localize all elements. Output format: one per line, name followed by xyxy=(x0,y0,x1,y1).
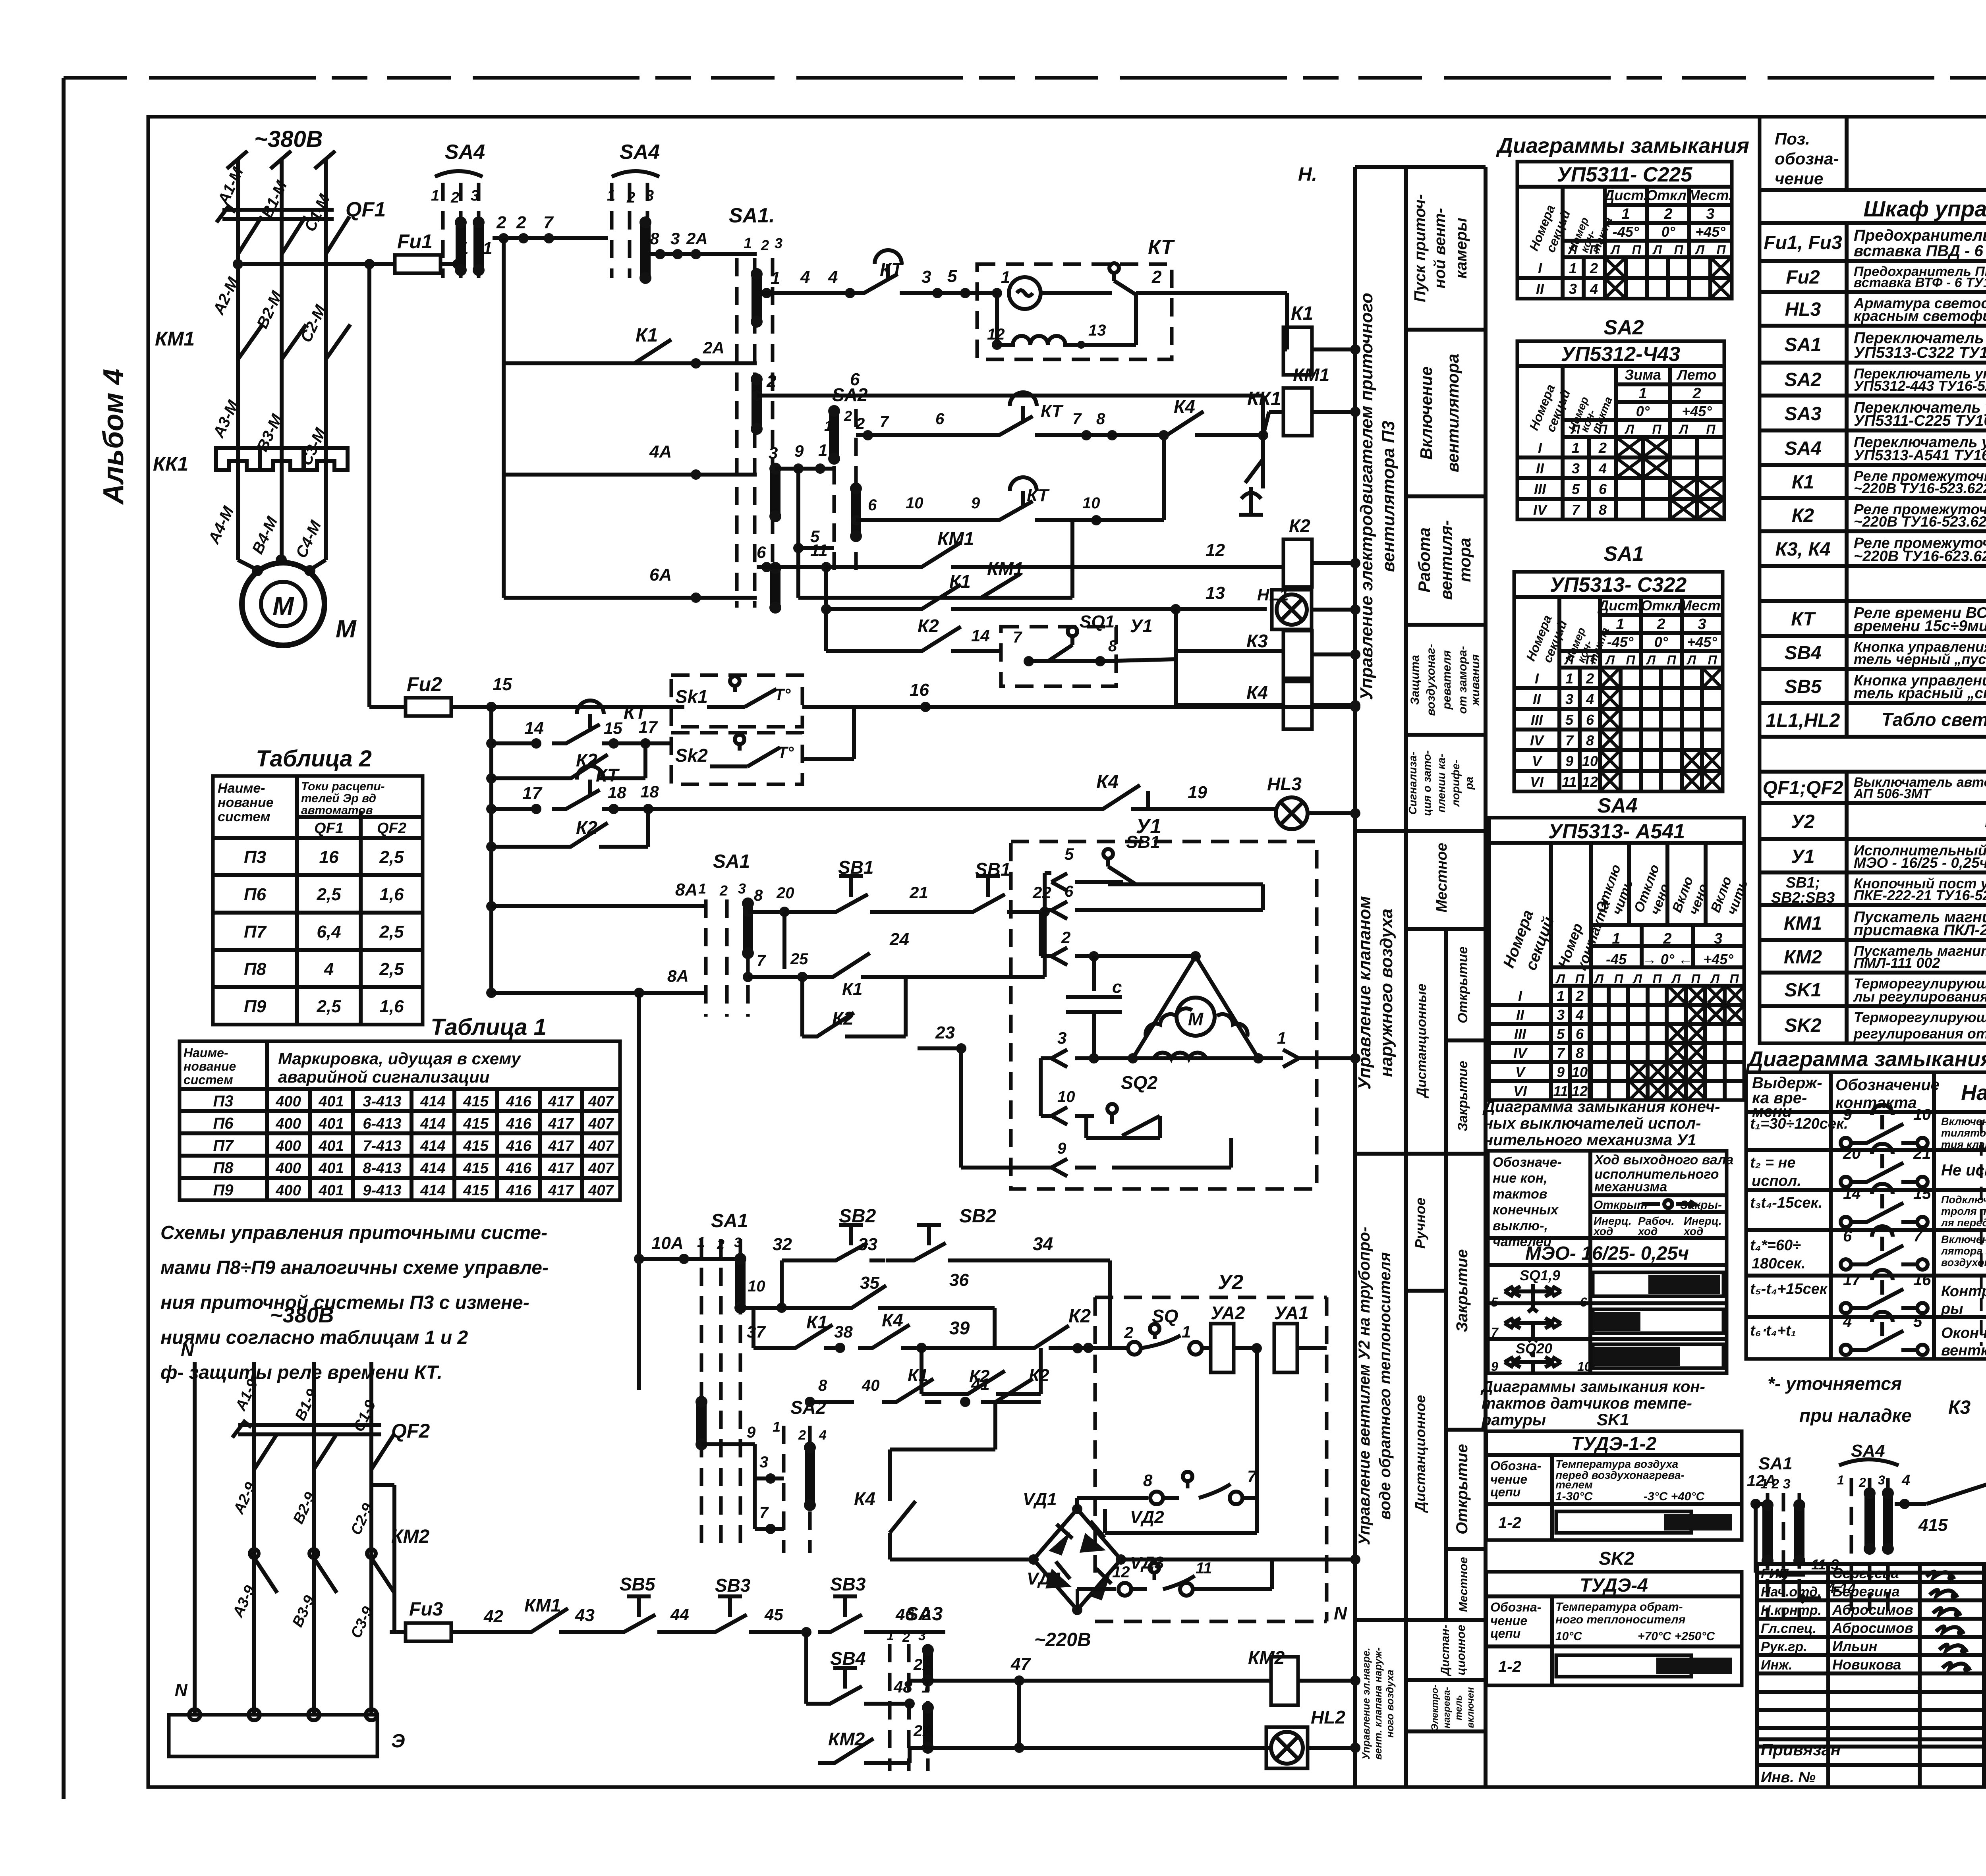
svg-text:39: 39 xyxy=(949,1318,970,1338)
svg-text:III: III xyxy=(1514,1026,1526,1042)
svg-text:414: 414 xyxy=(420,1116,445,1132)
svg-text:ПМЛ-111 002: ПМЛ-111 002 xyxy=(1854,955,1940,971)
svg-text:Включение приточного венти-: Включение приточного венти- xyxy=(1941,1233,1986,1245)
svg-text:1: 1 xyxy=(1182,1322,1191,1341)
svg-text:Обозна-: Обозна- xyxy=(1490,1600,1541,1614)
limit switch SQ1 box xyxy=(1001,627,1116,686)
svg-text:венткамеры: венткамеры xyxy=(1941,1342,1986,1359)
svg-text:3: 3 xyxy=(1569,281,1577,297)
svg-text:КМ2: КМ2 xyxy=(1784,947,1822,968)
KT motor symbol xyxy=(1009,277,1041,309)
svg-text:КМ1: КМ1 xyxy=(937,528,974,549)
zone strip frame xyxy=(1353,167,1357,1787)
svg-text:Наиме-: Наиме- xyxy=(218,781,265,796)
zone: работа вентилятора xyxy=(1406,623,1486,627)
rung 22 connector 5 SB1 xyxy=(1045,871,1051,875)
svg-text:10: 10 xyxy=(1582,753,1598,769)
node 5 branch xyxy=(793,543,804,553)
svg-text:Нач.отд.: Нач.отд. xyxy=(1761,1585,1821,1600)
svg-text:Рук.гр.: Рук.гр. xyxy=(1761,1639,1807,1654)
motor M xyxy=(238,560,326,570)
svg-text:МЭО- 16/25- 0,25ч: МЭО- 16/25- 0,25ч xyxy=(1525,1243,1689,1264)
svg-text:Ход выходного вала: Ход выходного вала xyxy=(1594,1152,1733,1168)
svg-text:Л: Л xyxy=(1695,243,1705,257)
svg-text:HL1: HL1 xyxy=(1257,585,1289,604)
svg-text:Мест.: Мест. xyxy=(1688,187,1733,203)
svg-text:Токи расцепи-: Токи расцепи- xyxy=(301,780,385,793)
svg-text:t₂ = не: t₂ = не xyxy=(1750,1154,1796,1171)
svg-text:Л: Л xyxy=(1679,422,1688,436)
svg-text:вентиля-: вентиля- xyxy=(1437,520,1455,600)
svg-text:III: III xyxy=(1531,712,1543,728)
svg-text:Fu2: Fu2 xyxy=(1786,267,1820,288)
svg-text:6: 6 xyxy=(868,496,877,514)
svg-text:Пуск приточ-: Пуск приточ- xyxy=(1411,194,1429,302)
rung K1-13 to HL1 xyxy=(824,567,828,609)
svg-text:Местное: Местное xyxy=(1433,843,1450,912)
svg-text:телей Эр вд: телей Эр вд xyxy=(301,792,376,805)
svg-text:1,6: 1,6 xyxy=(379,997,404,1016)
rung 8 40 K1 41 K2 xyxy=(805,1397,815,1407)
node 7 rung xyxy=(765,1524,776,1534)
svg-text:SB2: SB2 xyxy=(839,1206,876,1227)
svg-text:П: П xyxy=(1626,653,1635,667)
svg-text:7: 7 xyxy=(1572,502,1580,518)
svg-text:1: 1 xyxy=(1569,260,1577,276)
svg-text:У2: У2 xyxy=(1218,1271,1243,1294)
svg-text:I: I xyxy=(1538,440,1542,456)
svg-text:выклю-,: выклю-, xyxy=(1493,1218,1548,1233)
svg-text:47: 47 xyxy=(1010,1654,1031,1674)
svg-text:6: 6 xyxy=(1599,481,1607,497)
svg-text:-3°С +40°С: -3°С +40°С xyxy=(1644,1490,1705,1503)
svg-text:416: 416 xyxy=(506,1160,531,1177)
svg-text:414: 414 xyxy=(420,1138,445,1154)
svg-text:В1-9: В1-9 xyxy=(292,1386,321,1423)
svg-text:SK2: SK2 xyxy=(1784,1015,1822,1036)
svg-text:Мест.: Мест. xyxy=(1680,597,1724,614)
signature table xyxy=(1757,1580,1986,1584)
svg-text:0°: 0° xyxy=(1654,634,1668,650)
svg-text:Температура воздуха: Температура воздуха xyxy=(1555,1458,1678,1470)
svg-text:18: 18 xyxy=(640,782,659,801)
svg-text:ф- защиты реле времени КТ.: ф- защиты реле времени КТ. xyxy=(160,1362,442,1383)
svg-text:1: 1 xyxy=(1616,616,1624,633)
button SB5 stop xyxy=(612,1615,673,1632)
svg-text:401: 401 xyxy=(318,1116,344,1132)
svg-text:7-413: 7-413 xyxy=(363,1138,401,1154)
svg-text:t₅-t₄+15сек: t₅-t₄+15сек xyxy=(1750,1281,1828,1297)
svg-text:2: 2 xyxy=(844,408,852,424)
button SB3 start xyxy=(818,1615,880,1632)
svg-text:УП5312-Ч43: УП5312-Ч43 xyxy=(1561,343,1680,366)
svg-text:Назначение контакта: Назначение контакта xyxy=(1961,1081,1986,1105)
svg-text:К3: К3 xyxy=(1948,1397,1971,1418)
svg-text:3: 3 xyxy=(1572,460,1580,477)
svg-text:при наладке: при наладке xyxy=(1799,1405,1912,1426)
bridge top contact 8-7 xyxy=(1075,1498,1079,1509)
svg-text:SA2: SA2 xyxy=(1603,316,1644,339)
svg-text:КМ1: КМ1 xyxy=(1293,365,1329,385)
svg-text:нагрева-: нагрева- xyxy=(1441,1687,1452,1728)
svg-text:конечных: конечных xyxy=(1493,1202,1559,1218)
svg-text:тель: тель xyxy=(1453,1695,1464,1720)
svg-text:Терморегулирующее устройство: Терморегулирующее устройство ТУДЭ-4. Пре… xyxy=(1854,1009,1986,1025)
svg-text:УП5313- С322: УП5313- С322 xyxy=(1550,573,1687,596)
svg-text:2: 2 xyxy=(1151,267,1162,287)
svg-text:SA1: SA1 xyxy=(711,1210,748,1231)
svg-text:2,5: 2,5 xyxy=(379,847,404,867)
svg-text:Fu1, Fu3: Fu1, Fu3 xyxy=(1764,232,1842,253)
svg-text:10: 10 xyxy=(1913,1106,1931,1123)
svg-text:SB3: SB3 xyxy=(715,1575,751,1596)
svg-text:П: П xyxy=(1585,653,1595,667)
svg-text:3: 3 xyxy=(769,444,778,462)
svg-text:QF1;QF2: QF1;QF2 xyxy=(1763,778,1843,799)
svg-text:ля перед включением вентилятор: ля перед включением вентилятора xyxy=(1940,1217,1986,1229)
svg-text:1: 1 xyxy=(1277,1029,1286,1047)
component list table frame xyxy=(1760,117,1986,1043)
rung 4A xyxy=(502,363,506,598)
svg-text:407: 407 xyxy=(588,1182,614,1199)
svg-text:400: 400 xyxy=(275,1160,301,1177)
svg-text:П: П xyxy=(1706,422,1716,436)
svg-text:обозна-: обозна- xyxy=(1775,149,1839,168)
svg-text:→ 0° ←: → 0° ← xyxy=(1642,951,1692,967)
svg-text:8: 8 xyxy=(1586,732,1594,749)
svg-text:V: V xyxy=(1515,1064,1526,1080)
svg-text:7: 7 xyxy=(1913,1228,1923,1245)
svg-text:5: 5 xyxy=(1572,481,1580,497)
svg-text:1: 1 xyxy=(818,441,827,459)
svg-text:415: 415 xyxy=(1918,1515,1948,1535)
svg-text:1: 1 xyxy=(1621,206,1630,222)
svg-text:ных выключателей испол-: ных выключателей испол- xyxy=(1484,1115,1701,1132)
svg-text:1L1,HL2: 1L1,HL2 xyxy=(1766,710,1840,731)
svg-text:К4: К4 xyxy=(1246,682,1268,703)
svg-text:II: II xyxy=(1516,1007,1524,1023)
wire 16 xyxy=(802,705,925,709)
svg-text:Лето: Лето xyxy=(1676,367,1716,383)
svg-text:УП5311-С225 ТУ16-524.074-75: УП5311-С225 ТУ16-524.074-75 xyxy=(1854,412,1986,429)
svg-text:19: 19 xyxy=(1188,783,1207,802)
TUDE-4 table xyxy=(1486,1572,1742,1685)
svg-text:6,4: 6,4 xyxy=(317,922,341,942)
time relay KT box xyxy=(977,264,1172,359)
svg-text:21: 21 xyxy=(1913,1145,1931,1162)
svg-text:6А: 6А xyxy=(649,565,672,585)
svg-text:нительного механизма У1: нительного механизма У1 xyxy=(1484,1131,1696,1149)
svg-text:УА1: УА1 xyxy=(1274,1303,1309,1323)
K2 contact low xyxy=(800,977,804,1036)
svg-text:4А: 4А xyxy=(649,442,672,461)
svg-text:10: 10 xyxy=(906,494,923,512)
svg-text:камеры: камеры xyxy=(1453,218,1470,278)
svg-text:~380В: ~380В xyxy=(254,126,323,152)
svg-text:25: 25 xyxy=(790,950,808,968)
svg-text:УП5313- А541: УП5313- А541 xyxy=(1548,820,1685,843)
svg-text:Диаграмма замыкания конеч-: Диаграмма замыкания конеч- xyxy=(1482,1098,1720,1116)
wire 34 drop xyxy=(1108,1260,1112,1348)
svg-text:П: П xyxy=(1589,243,1599,257)
svg-text:45: 45 xyxy=(764,1605,783,1624)
svg-text:лы регулирования от-30°С до+40: лы регулирования от-30°С до+40°С ТУ25 02… xyxy=(1853,988,1986,1005)
rung 6-11 KM1-12 to K2 xyxy=(761,562,772,572)
svg-text:5: 5 xyxy=(1913,1313,1922,1330)
branch to K1 contact 24 xyxy=(782,912,786,969)
relay coil K3 xyxy=(1283,631,1312,678)
svg-text:SB5: SB5 xyxy=(620,1574,656,1594)
svg-text:407: 407 xyxy=(588,1160,614,1177)
svg-text:SA2: SA2 xyxy=(832,384,868,405)
svg-text:10: 10 xyxy=(1082,494,1100,512)
svg-text:1: 1 xyxy=(1837,1473,1844,1487)
svg-text:К4: К4 xyxy=(882,1310,903,1330)
svg-text:2: 2 xyxy=(1590,260,1598,276)
svg-text:SA1: SA1 xyxy=(1758,1454,1793,1473)
wire 400 xyxy=(1756,1571,1986,1575)
svg-text:Инж.: Инж. xyxy=(1761,1658,1792,1673)
svg-text:ход: ход xyxy=(1593,1225,1613,1237)
svg-text:9: 9 xyxy=(971,494,980,512)
svg-text:Н.: Н. xyxy=(1298,164,1317,185)
svg-text:2А: 2А xyxy=(913,1656,934,1673)
svg-text:Предохранитель ПРС-6-П ~380В.: Предохранитель ПРС-6-П ~380В. Плавкая xyxy=(1854,227,1986,244)
svg-text:КТ: КТ xyxy=(596,765,620,786)
svg-text:М: М xyxy=(1188,1009,1204,1029)
svg-text:1: 1 xyxy=(887,1628,894,1643)
svg-text:ние кон,: ние кон, xyxy=(1493,1171,1547,1186)
svg-text:2: 2 xyxy=(1575,988,1584,1004)
svg-text:III: III xyxy=(1534,481,1546,497)
svg-text:Э: Э xyxy=(391,1731,405,1752)
svg-text:Маркировка, идущая в схему: Маркировка, идущая в схему xyxy=(278,1049,522,1068)
svg-text:лорифе-: лорифе- xyxy=(1449,760,1462,807)
svg-text:SA4: SA4 xyxy=(1597,794,1637,817)
svg-text:414: 414 xyxy=(420,1093,445,1110)
svg-text:Дистанционные: Дистанционные xyxy=(1414,984,1429,1098)
svg-text:1-2: 1-2 xyxy=(1498,1658,1521,1675)
svg-text:ниями согласно таблицам 1 и: ниями согласно таблицам 1 и 2 xyxy=(160,1327,468,1348)
svg-text:SQ1,9: SQ1,9 xyxy=(1520,1267,1560,1283)
svg-text:П: П xyxy=(1598,422,1607,436)
svg-text:+45°: +45° xyxy=(1687,634,1717,650)
svg-text:41: 41 xyxy=(971,1375,990,1393)
svg-text:9: 9 xyxy=(794,442,804,460)
svg-text:8: 8 xyxy=(754,887,763,904)
svg-text:наружного воздуха: наружного воздуха xyxy=(1377,909,1396,1077)
connector 6 return xyxy=(1051,901,1123,919)
svg-text:15: 15 xyxy=(604,719,622,737)
thermostat SK2 box xyxy=(671,733,802,784)
svg-text:2: 2 xyxy=(1663,206,1672,222)
svg-text:2,5: 2,5 xyxy=(316,885,341,904)
rung 32 SB2 33 SB2 34 xyxy=(780,1260,784,1308)
svg-text:38: 38 xyxy=(834,1322,853,1341)
svg-text:6: 6 xyxy=(935,410,945,428)
svg-text:А1-М: А1-М xyxy=(214,164,247,208)
svg-text:К1: К1 xyxy=(1792,472,1814,493)
svg-text:14: 14 xyxy=(971,626,990,645)
svg-text:2: 2 xyxy=(1598,440,1607,456)
svg-text:П: П xyxy=(1708,653,1717,667)
svg-text:механизма: механизма xyxy=(1594,1179,1667,1195)
contact K3 no1 xyxy=(1905,1481,1986,1504)
node 3 rung xyxy=(765,1473,776,1484)
svg-text:В1-М: В1-М xyxy=(258,178,291,221)
svg-text:12: 12 xyxy=(1206,540,1225,560)
svg-text:32: 32 xyxy=(773,1235,792,1254)
svg-text:QF2: QF2 xyxy=(391,1420,430,1442)
phase wire C1-M xyxy=(324,159,328,560)
svg-text:Откл: Откл xyxy=(1641,597,1681,614)
svg-text:1-2: 1-2 xyxy=(1498,1514,1521,1532)
svg-text:SQ1: SQ1 xyxy=(1080,612,1115,631)
table 1 xyxy=(180,1041,620,1200)
svg-text:1,6: 1,6 xyxy=(379,885,404,904)
svg-text:18: 18 xyxy=(608,783,626,802)
svg-text:чение: чение xyxy=(1490,1472,1527,1486)
rung 2A-47 to KM2 coil xyxy=(923,1675,933,1686)
KT release contact xyxy=(1109,263,1119,273)
svg-text:Схемы управления приточными: Схемы управления приточными систе- xyxy=(160,1222,547,1243)
svg-text:3: 3 xyxy=(918,1628,926,1643)
TUDE-1-2 table xyxy=(1486,1431,1742,1540)
svg-text:3: 3 xyxy=(775,235,782,251)
svg-text:SK2: SK2 xyxy=(1599,1548,1634,1569)
svg-text:2: 2 xyxy=(516,213,526,232)
svg-text:3: 3 xyxy=(1557,1007,1565,1023)
rung 10A xyxy=(634,1254,644,1264)
svg-text:17: 17 xyxy=(522,784,543,803)
svg-text:6: 6 xyxy=(1576,1026,1584,1042)
svg-text:15: 15 xyxy=(493,675,512,694)
svg-text:7: 7 xyxy=(543,213,554,232)
svg-text:+45°: +45° xyxy=(1682,403,1712,419)
svg-text:Откл.: Откл. xyxy=(1646,187,1690,203)
rung 7-25-K1 xyxy=(743,972,753,982)
svg-text:t₄*=60÷: t₄*=60÷ xyxy=(1750,1237,1801,1254)
svg-text:7: 7 xyxy=(1072,410,1082,428)
svg-text:ного воздуха: ного воздуха xyxy=(1384,1669,1396,1737)
svg-text:лятора зимой (после прогрева: лятора зимой (после прогрева xyxy=(1940,1245,1986,1257)
svg-text:Обозначение: Обозначение xyxy=(1835,1076,1940,1094)
MEO table xyxy=(1488,1151,1727,1373)
svg-text:6: 6 xyxy=(1586,712,1594,728)
svg-text:~220В: ~220В xyxy=(1034,1629,1091,1650)
svg-text:SB3: SB3 xyxy=(830,1574,866,1594)
svg-text:Сигнализа-: Сигнализа- xyxy=(1406,752,1419,815)
relay coil K1 xyxy=(1283,327,1312,375)
svg-text:SA1.: SA1. xyxy=(729,204,775,227)
svg-text:вент. клапана наруж-: вент. клапана наруж- xyxy=(1372,1648,1384,1760)
contact KM1 aux xyxy=(467,1630,516,1634)
svg-text:У1: У1 xyxy=(1130,616,1153,636)
svg-text:2: 2 xyxy=(719,882,728,899)
svg-text:Обозначе-: Обозначе- xyxy=(1493,1155,1562,1170)
svg-text:Управление электродвигателем: Управление электродвигателем приточного xyxy=(1357,293,1376,700)
svg-text:2А: 2А xyxy=(686,229,708,248)
svg-text:ного теплоносителя: ного теплоносителя xyxy=(1555,1613,1686,1626)
svg-text:Зима: Зима xyxy=(1625,367,1661,383)
svg-text:SB1: SB1 xyxy=(838,857,873,878)
svg-text:7: 7 xyxy=(759,1504,769,1521)
svg-text:П8: П8 xyxy=(244,959,267,979)
rung K2-14 SQ1 xyxy=(824,609,828,651)
svg-text:SQ2: SQ2 xyxy=(1121,1072,1157,1093)
svg-text:+70°С +250°С: +70°С +250°С xyxy=(1638,1630,1715,1643)
svg-text:нование: нование xyxy=(218,795,274,810)
zone: защита воздухонагревателя xyxy=(1406,733,1486,737)
svg-text:3: 3 xyxy=(922,267,931,287)
svg-text:ры: ры xyxy=(1941,1301,1963,1317)
svg-text:+45°: +45° xyxy=(1695,224,1725,240)
svg-text:t₃t₄-15сек.: t₃t₄-15сек. xyxy=(1750,1195,1822,1211)
svg-text:1-30°С: 1-30°С xyxy=(1555,1490,1593,1503)
svg-text:QF1: QF1 xyxy=(346,198,386,221)
svg-text:SB1: SB1 xyxy=(975,859,1010,880)
svg-text:Включение приточного вен-: Включение приточного вен- xyxy=(1941,1116,1986,1127)
svg-text:П9: П9 xyxy=(213,1181,234,1199)
svg-text:К1: К1 xyxy=(949,571,971,592)
svg-text:КТ: КТ xyxy=(1148,236,1175,259)
MEO timing bars xyxy=(1593,1272,1723,1296)
svg-text:5: 5 xyxy=(1064,845,1074,863)
svg-text:П6: П6 xyxy=(244,885,267,904)
svg-text:3: 3 xyxy=(759,1453,768,1471)
svg-text:вентилятора: вентилятора xyxy=(1443,354,1462,472)
svg-text:36: 36 xyxy=(949,1270,969,1290)
svg-text:12: 12 xyxy=(1112,1563,1130,1581)
svg-text:II: II xyxy=(1536,281,1544,297)
svg-text:-45°: -45° xyxy=(1613,224,1639,240)
K2 parallel loop xyxy=(920,1348,923,1394)
svg-text:3: 3 xyxy=(1057,1029,1066,1047)
svg-text:Л: Л xyxy=(1625,422,1634,436)
svg-text:Н.контр.: Н.контр. xyxy=(1761,1603,1822,1618)
K2 bypass rung xyxy=(486,773,496,784)
signal lamp HL1 xyxy=(1272,590,1312,629)
svg-text:П: П xyxy=(1667,653,1676,667)
svg-text:МЭО - 16/25 - 0,25ч: МЭО - 16/25 - 0,25ч xyxy=(1854,855,1986,871)
motor M delta winding xyxy=(1190,951,1201,961)
svg-text:N: N xyxy=(175,1680,188,1700)
svg-text:*- уточняется: *- уточняется xyxy=(1768,1373,1902,1394)
contact K4 rung 19 to HL3 xyxy=(1088,785,1148,809)
svg-text:7: 7 xyxy=(1565,732,1574,749)
svg-text:1: 1 xyxy=(1572,440,1580,456)
svg-text:SB1: SB1 xyxy=(1126,832,1160,852)
svg-text:воздухонаг-: воздухонаг- xyxy=(1424,644,1437,716)
svg-text:6: 6 xyxy=(757,543,766,562)
svg-text:цепи: цепи xyxy=(1490,1485,1520,1499)
svg-text:-45: -45 xyxy=(1606,951,1627,967)
svg-text:SB5: SB5 xyxy=(1784,676,1822,697)
svg-text:Наиме-: Наиме- xyxy=(184,1046,228,1060)
svg-text:400: 400 xyxy=(275,1116,301,1132)
svg-text:9: 9 xyxy=(1557,1064,1565,1080)
relay coil K2 xyxy=(1283,539,1312,587)
svg-text:2: 2 xyxy=(761,237,769,253)
svg-text:КТ: КТ xyxy=(1041,401,1064,421)
svg-text:5: 5 xyxy=(947,266,957,286)
svg-text:П9: П9 xyxy=(244,997,267,1016)
svg-text:8: 8 xyxy=(650,229,659,248)
rung 8A to SA1 xyxy=(486,901,496,911)
svg-text:К1: К1 xyxy=(636,325,658,346)
svg-text:К2: К2 xyxy=(1068,1306,1091,1327)
svg-text:КК1: КК1 xyxy=(153,453,188,475)
